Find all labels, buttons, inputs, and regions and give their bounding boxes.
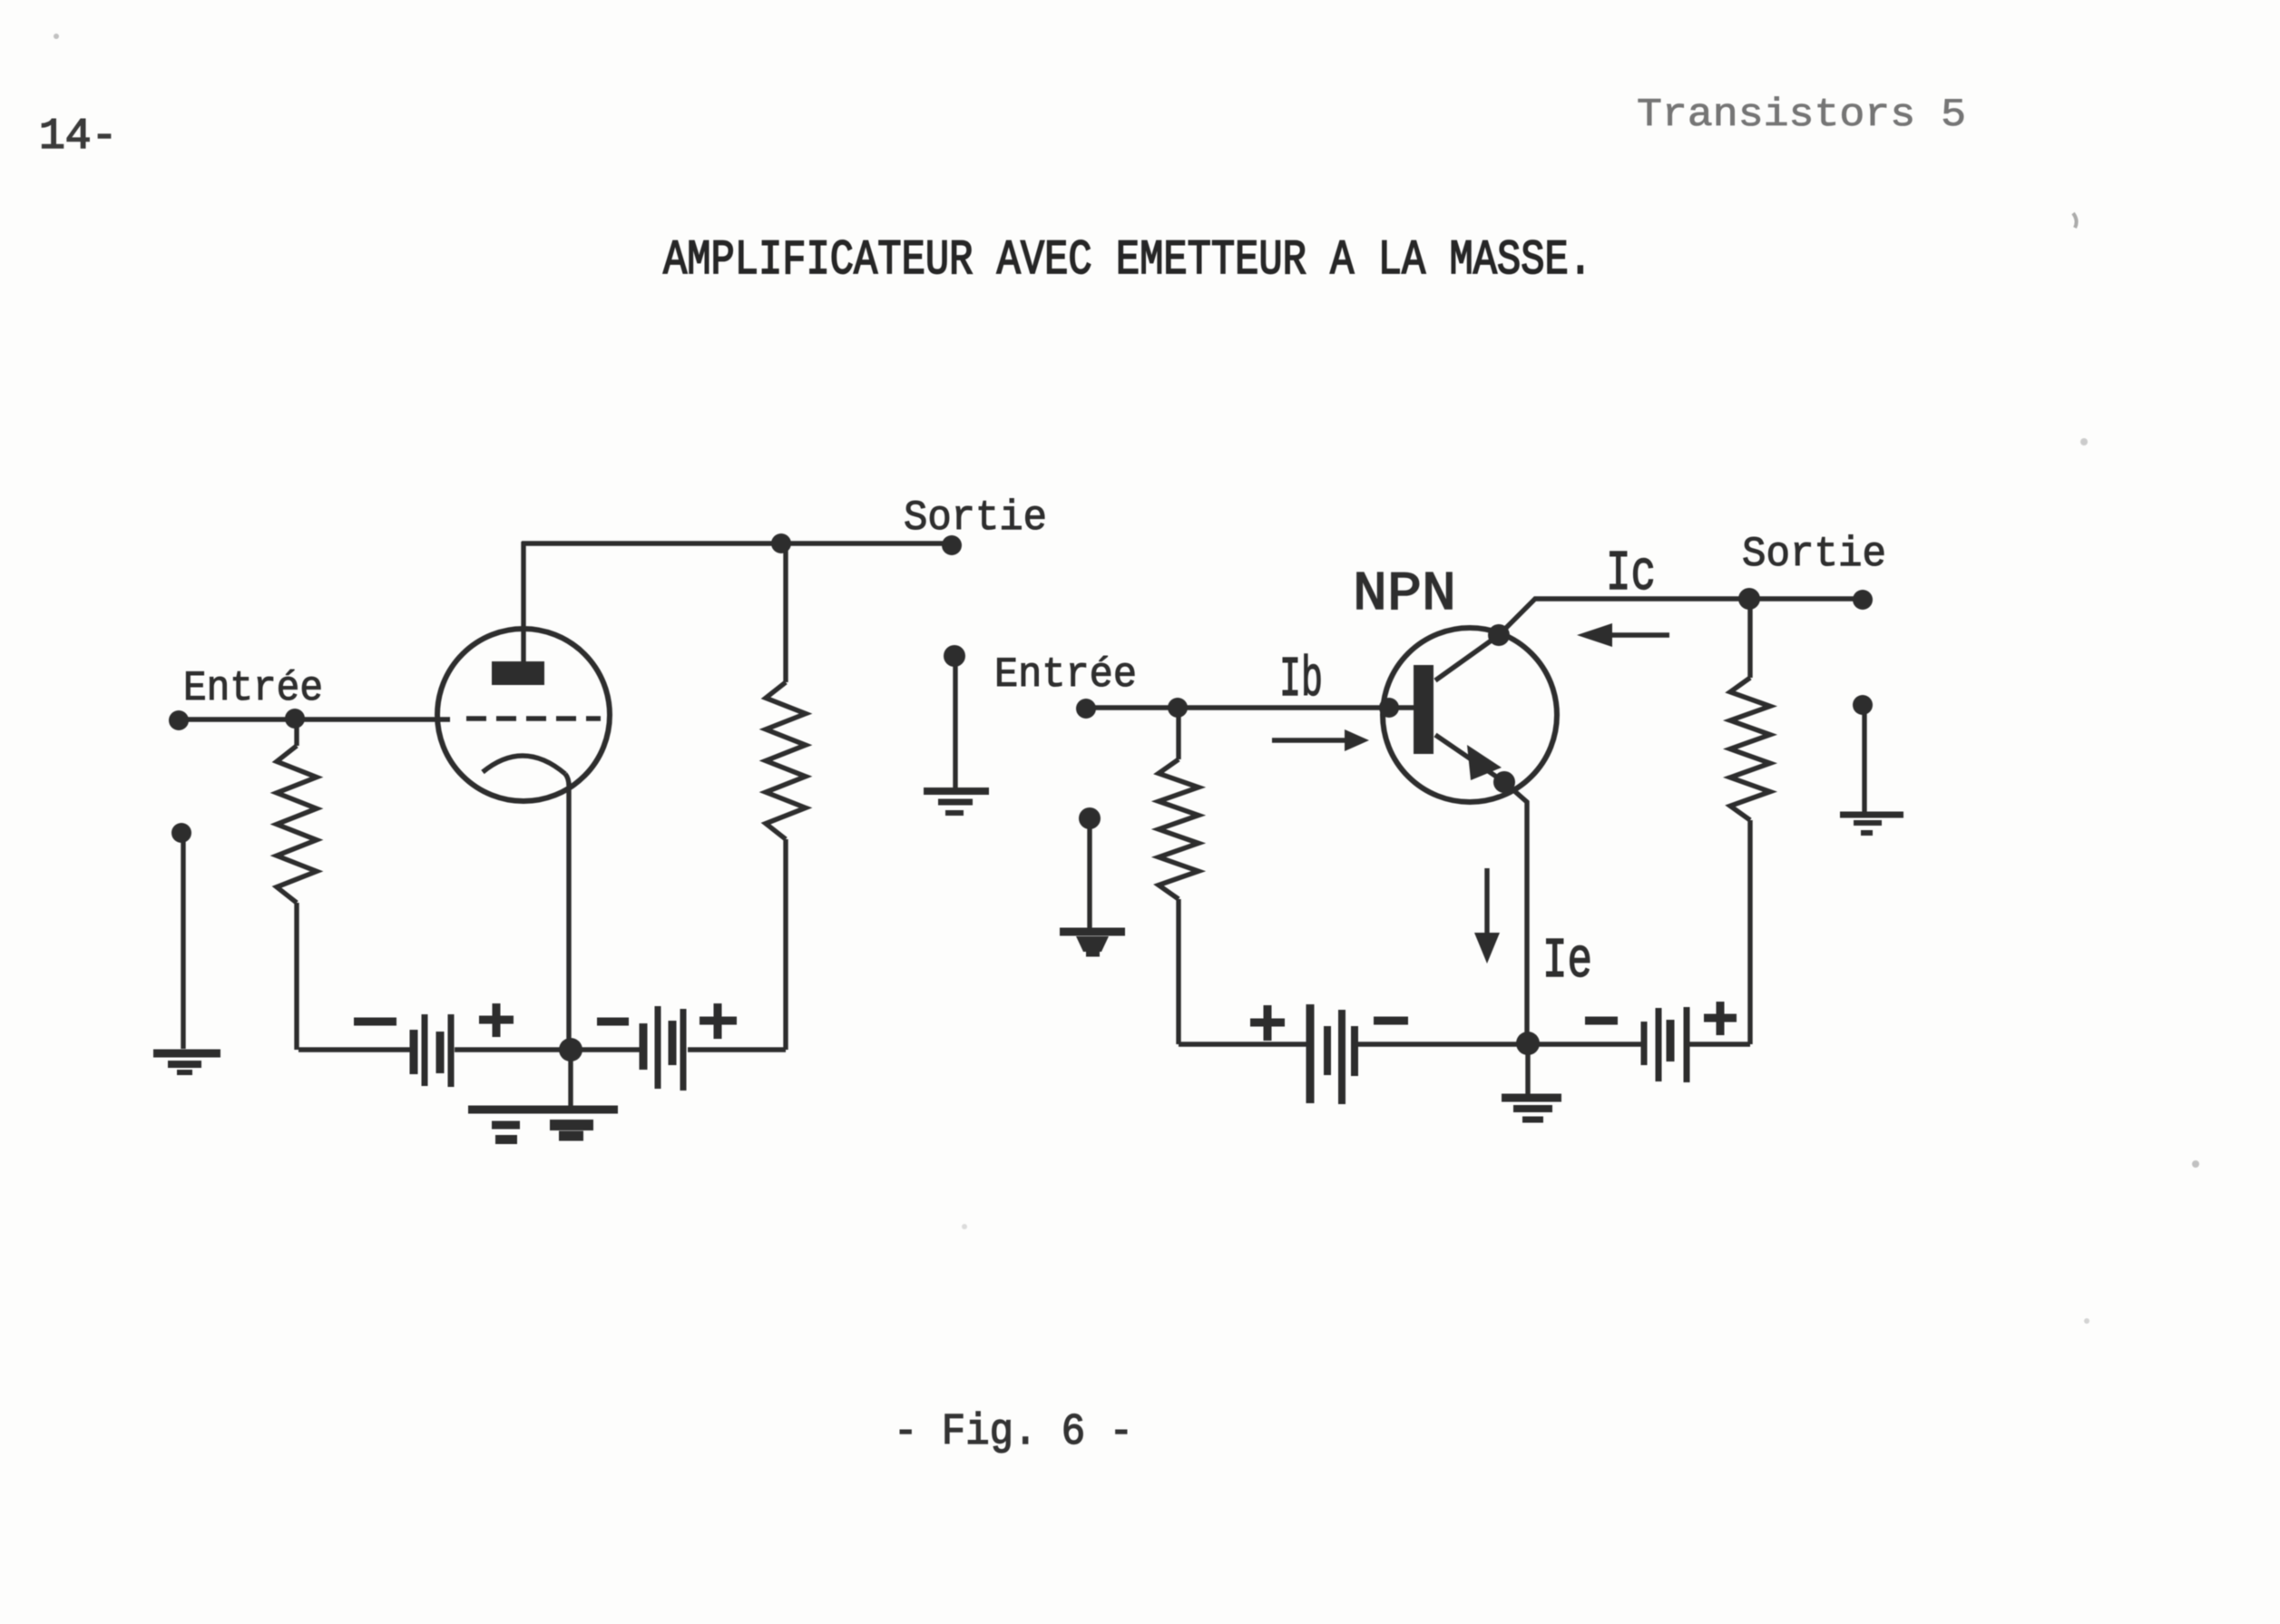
svg-text:14-: 14-	[39, 113, 117, 161]
svg-text:Entrée: Entrée	[994, 651, 1137, 699]
svg-text:- Fig. 6 -: - Fig. 6 -	[894, 1408, 1133, 1457]
svg-text:Sortie: Sortie	[904, 494, 1047, 542]
svg-text:Ib: Ib	[1279, 648, 1323, 712]
svg-text:Transistors 5: Transistors 5	[1637, 93, 1966, 138]
svg-text:Sortie: Sortie	[1742, 531, 1886, 578]
svg-text:AMPLIFICATEUR AVEC EMETTEUR A: AMPLIFICATEUR AVEC EMETTEUR A LA MASSE.	[663, 233, 1592, 289]
svg-text:Ic: Ic	[1606, 542, 1656, 606]
svg-text:Ie: Ie	[1542, 929, 1592, 993]
svg-text:Entrée: Entrée	[183, 665, 323, 712]
svg-text:NPN: NPN	[1353, 564, 1456, 626]
